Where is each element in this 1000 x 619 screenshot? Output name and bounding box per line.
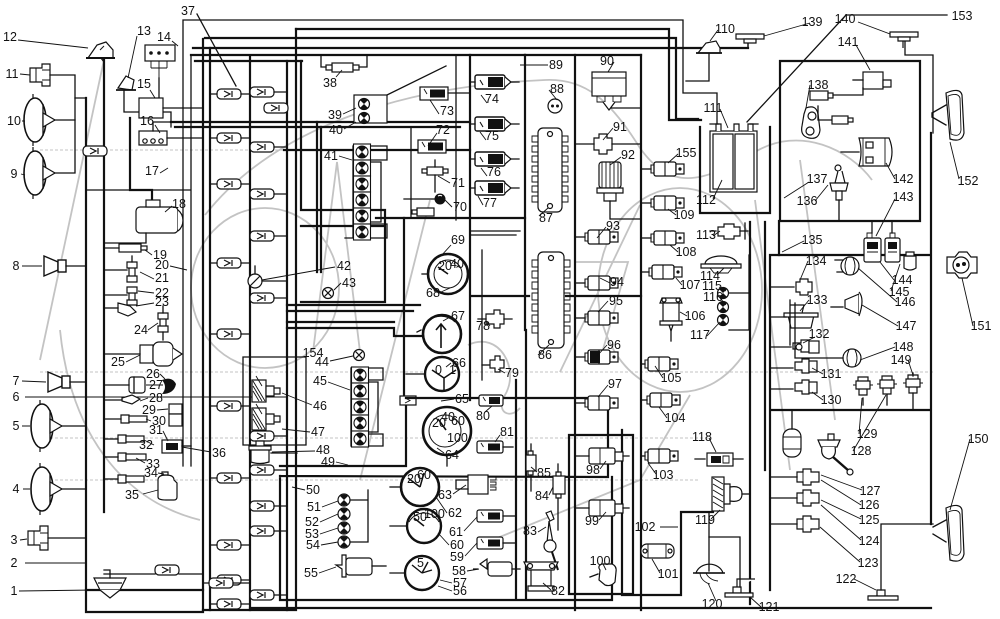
wire central rail E: [203, 29, 296, 610]
capsule 27: [104, 377, 145, 393]
svg-text:2: 2: [11, 556, 18, 570]
cap 145b: [904, 252, 916, 270]
fuse 71: [422, 160, 448, 192]
svg-text:79: 79: [505, 366, 519, 380]
lamp 3: [28, 526, 86, 550]
headlamp 9: [24, 98, 75, 199]
wire cluster corner 68: [470, 231, 520, 235]
svg-text:73: 73: [440, 104, 454, 118]
pan 133: [770, 300, 818, 345]
fuse left bus small: [83, 146, 250, 588]
terminal block 41: [345, 144, 387, 240]
fan 26: [162, 379, 176, 394]
fuse 84 vertical: [553, 464, 565, 530]
fuse 65: [400, 396, 416, 405]
speaker 152: [932, 90, 964, 140]
wire rail x411: [410, 127, 412, 218]
switch 31/36: [162, 440, 191, 453]
lamp 146: [835, 257, 859, 275]
svg-text:23: 23: [155, 295, 169, 309]
svg-text:100: 100: [590, 554, 611, 568]
sensor 78: [478, 310, 512, 328]
svg-text:98: 98: [586, 463, 600, 477]
relay 39/40: [354, 95, 387, 124]
svg-text:6: 6: [13, 390, 20, 404]
svg-text:25: 25: [111, 355, 125, 369]
wire battery box: [700, 127, 770, 213]
svg-text:71: 71: [451, 176, 465, 190]
fuse 59: [477, 537, 515, 549]
wire rail x482: [481, 250, 483, 380]
svg-text:72: 72: [436, 123, 450, 137]
svg-text:141: 141: [838, 35, 859, 49]
horn 114: [701, 256, 741, 273]
ground 122: [868, 524, 933, 600]
svg-text:143: 143: [893, 190, 914, 204]
watermark big ellipse: [40, 55, 935, 545]
svg-text:96: 96: [607, 338, 621, 352]
wire bus y150: [284, 149, 470, 151]
wire bottom left bus: [86, 589, 203, 591]
svg-text:153: 153: [952, 9, 973, 23]
wire label37 leader: [197, 14, 236, 86]
motor 58: [473, 559, 520, 576]
svg-text:77: 77: [483, 196, 497, 210]
sensor 103: [641, 449, 678, 463]
connector 87: [532, 128, 568, 212]
gauge 66 fuel: [406, 357, 459, 392]
svg-text:135: 135: [802, 233, 823, 247]
wire bus y218: [376, 217, 525, 219]
svg-text:24: 24: [134, 323, 148, 337]
flask 35: [158, 472, 177, 500]
wire central rail A: [202, 39, 204, 610]
connector 16: [139, 122, 203, 145]
headlamp 4: [31, 463, 86, 515]
svg-text:106: 106: [685, 309, 706, 323]
sensor 96: [575, 350, 618, 364]
connector 86: [532, 252, 570, 348]
lighter 101: [641, 544, 674, 558]
svg-text:0: 0: [435, 363, 442, 377]
motor 119: [712, 477, 750, 511]
lever 83: [544, 511, 558, 570]
lamp 148: [795, 303, 861, 367]
wire top bus 3: [205, 38, 698, 119]
sensor 95: [575, 311, 618, 325]
svg-text:147: 147: [896, 319, 917, 333]
svg-text:110: 110: [715, 22, 735, 36]
svg-text:130: 130: [821, 393, 842, 407]
svg-text:39: 39: [328, 108, 342, 122]
plug 128c: [877, 376, 897, 405]
svg-text:105: 105: [661, 371, 682, 385]
svg-text:148: 148: [893, 340, 914, 354]
sensor 109: [641, 196, 684, 210]
wire 17 bend: [130, 118, 152, 201]
wire 2 leader: [25, 562, 86, 564]
svg-text:67: 67: [451, 309, 465, 323]
wire rails x516 x526: [516, 330, 526, 598]
svg-text:139: 139: [802, 15, 823, 29]
svg-text:5: 5: [417, 556, 424, 570]
fuse 81: [477, 441, 513, 453]
svg-text:84: 84: [535, 489, 549, 503]
wire right mid box: [770, 133, 931, 590]
box 50: [280, 398, 612, 600]
fuse near 70: [412, 208, 434, 216]
relay 145: [885, 221, 900, 262]
svg-text:89: 89: [549, 58, 563, 72]
sensor 105: [641, 357, 678, 371]
marker lamp 13: [116, 76, 171, 127]
switch 113: [710, 223, 748, 239]
sensor 30: [104, 415, 147, 423]
wire 98 box: [569, 435, 633, 594]
wire top frame right: [525, 54, 641, 56]
svg-text:57: 57: [453, 576, 467, 590]
sensor 29 group: [169, 404, 182, 426]
gauge 62: [390, 468, 439, 506]
lamp 12: [86, 42, 115, 62]
svg-text:103: 103: [653, 468, 674, 482]
junction 44: [354, 350, 365, 361]
fuse 76: [470, 152, 519, 166]
fuse 75: [470, 117, 519, 131]
wire rail x404: [403, 218, 405, 398]
fuse near 141: [810, 88, 863, 100]
svg-text:40: 40: [450, 257, 464, 271]
fuse 38: [321, 55, 367, 72]
relay 134: [770, 279, 812, 295]
regulator 90: [592, 72, 626, 110]
svg-text:112: 112: [696, 193, 716, 207]
fuse 85 vertical: [526, 444, 536, 491]
svg-text:124: 124: [859, 534, 880, 548]
wire gauge column vertical: [469, 55, 471, 400]
plug 129c: [853, 377, 873, 405]
svg-text:8: 8: [13, 259, 20, 273]
svg-text:68: 68: [426, 286, 440, 300]
wire regulator feeds: [611, 103, 641, 219]
svg-text:81: 81: [500, 425, 514, 439]
box 141: [853, 72, 891, 89]
svg-text:70: 70: [453, 200, 467, 214]
svg-text:7: 7: [13, 374, 20, 388]
svg-text:3: 3: [11, 533, 18, 547]
svg-text:40: 40: [329, 123, 343, 137]
svg-text:21: 21: [155, 271, 169, 285]
relay 98: [575, 448, 629, 464]
svg-text:121: 121: [759, 600, 780, 614]
svg-text:94: 94: [610, 275, 624, 289]
svg-text:138: 138: [808, 78, 829, 92]
term strip 51-54: [338, 490, 368, 548]
lamp 110: [696, 41, 722, 53]
svg-text:142: 142: [893, 172, 914, 186]
capsule 129: [783, 410, 801, 457]
fuse 77: [470, 181, 519, 195]
svg-text:127: 127: [860, 484, 881, 498]
svg-text:87: 87: [539, 211, 553, 225]
headlamp 5: [31, 400, 86, 452]
gauge 60: [390, 507, 445, 543]
plug 79: [482, 356, 504, 372]
ground 1: [94, 570, 126, 598]
svg-text:86: 86: [538, 348, 552, 362]
svg-text:18: 18: [172, 197, 186, 211]
socket 151: [947, 252, 977, 278]
svg-text:16: 16: [140, 114, 154, 128]
fuse 80: [479, 395, 503, 406]
svg-text:62: 62: [448, 506, 462, 520]
svg-text:46: 46: [313, 399, 327, 413]
svg-text:15: 15: [137, 77, 151, 91]
junction 88: [548, 99, 562, 113]
wire col vertical 575: [574, 55, 576, 610]
wire top bus 4: [193, 47, 748, 49]
svg-text:95: 95: [609, 294, 623, 308]
svg-text:93: 93: [606, 219, 620, 233]
horn 7: [48, 372, 86, 392]
svg-text:65: 65: [455, 392, 469, 406]
svg-text:122: 122: [836, 572, 857, 586]
svg-text:111: 111: [703, 101, 722, 115]
wire pair right verticals: [749, 222, 751, 604]
svg-text:150: 150: [968, 432, 989, 446]
svg-text:123: 123: [858, 556, 879, 570]
fuse 61: [477, 510, 515, 522]
horn 8: [44, 190, 190, 276]
svg-text:50: 50: [306, 483, 320, 497]
fuse 73: [387, 66, 470, 100]
svg-text:126: 126: [859, 498, 880, 512]
svg-text:100: 100: [424, 507, 445, 521]
junction 42: [248, 266, 287, 288]
svg-text:4: 4: [13, 482, 20, 496]
svg-text:146: 146: [895, 295, 916, 309]
lamp 11: [30, 64, 86, 98]
valve 82: [524, 562, 558, 591]
wire 16 feed thick: [171, 121, 470, 123]
sensor 32: [104, 435, 144, 443]
sensor 34: [104, 475, 144, 483]
connector 127b: [797, 469, 819, 485]
fuse 19: [104, 244, 147, 252]
wire lamp139 stem: [747, 42, 749, 48]
svg-text:102: 102: [635, 520, 656, 534]
wires right bottom: [770, 477, 797, 524]
headlamp 10: [24, 94, 75, 146]
svg-text:140: 140: [835, 12, 856, 26]
gauge 64 tachometer: [423, 407, 471, 466]
connector 125b: [797, 490, 819, 506]
sensor 94: [575, 276, 618, 290]
terminal block 45: [351, 367, 383, 447]
svg-text:14: 14: [157, 30, 171, 44]
svg-text:117: 117: [690, 328, 710, 342]
relay 99: [575, 500, 629, 516]
wire central rail B: [209, 48, 211, 610]
wire inner box 42: [301, 61, 385, 302]
svg-text:32: 32: [139, 438, 153, 452]
svg-text:137: 137: [807, 172, 828, 186]
sensor 107: [641, 265, 682, 279]
svg-text:76: 76: [487, 165, 501, 179]
svg-text:128: 128: [851, 444, 872, 458]
svg-text:1: 1: [11, 584, 18, 598]
battery 111/112: [710, 124, 758, 192]
svg-text:133: 133: [807, 293, 828, 307]
bracket 138: [802, 106, 832, 138]
wire 6 long leader: [25, 396, 288, 398]
wire 153 diagonal: [747, 15, 947, 122]
fuse 72: [418, 140, 446, 153]
svg-text:20: 20: [155, 258, 169, 272]
svg-text:55: 55: [304, 566, 318, 580]
svg-text:92: 92: [621, 148, 635, 162]
svg-text:75: 75: [485, 129, 499, 143]
sensor 104: [641, 393, 680, 407]
svg-text:54: 54: [306, 538, 320, 552]
svg-text:104: 104: [665, 411, 686, 425]
svg-text:69: 69: [451, 233, 465, 247]
svg-text:35: 35: [125, 488, 139, 502]
svg-text:118: 118: [692, 430, 712, 444]
svg-text:107: 107: [680, 278, 701, 292]
svg-text:42: 42: [337, 259, 351, 273]
svg-text:152: 152: [958, 174, 979, 188]
svg-text:43: 43: [342, 276, 356, 290]
svg-text:60: 60: [417, 468, 431, 482]
svg-text:74: 74: [485, 92, 499, 106]
sensor 130: [770, 380, 817, 394]
filter 25: [104, 342, 182, 366]
wire lamp110 stem: [686, 53, 709, 81]
svg-text:83: 83: [523, 524, 537, 538]
svg-text:17: 17: [145, 164, 159, 178]
resistor 55: [336, 555, 386, 577]
wire bus y296: [472, 295, 641, 297]
svg-text:37: 37: [181, 4, 195, 18]
wire gauge feed pairs: [287, 305, 421, 336]
svg-text:5: 5: [13, 419, 20, 433]
fuse 138b: [832, 116, 853, 124]
lamp 128: [818, 434, 853, 475]
lamp 140: [858, 22, 918, 48]
fuse column left: [210, 89, 250, 609]
svg-text:113: 113: [696, 228, 716, 242]
sensor 132: [770, 340, 819, 353]
wire 16 feed thick lower: [175, 126, 460, 128]
sensor 28: [104, 395, 140, 404]
connector 123b: [797, 516, 819, 532]
plug 47: [252, 404, 280, 430]
sensor 93: [575, 230, 618, 244]
svg-text:136: 136: [797, 194, 818, 208]
svg-text:63: 63: [438, 488, 452, 502]
svg-text:61: 61: [449, 525, 463, 539]
svg-text:59: 59: [450, 550, 464, 564]
sensor 108: [641, 231, 684, 245]
ground 121: [709, 537, 755, 597]
connector 14: [145, 45, 175, 112]
wire 49 bus: [280, 398, 406, 466]
wire central rail C: [249, 56, 251, 610]
svg-text:34: 34: [144, 466, 158, 480]
svg-text:60: 60: [451, 414, 465, 428]
starter 18: [104, 200, 183, 243]
wire top bus 2: [296, 29, 701, 120]
switch 136: [830, 165, 848, 221]
wire left vertical outer: [86, 98, 203, 612]
relay 144: [864, 221, 881, 262]
wire top frame y61: [195, 60, 302, 62]
canister 48: [249, 441, 297, 464]
svg-text:9: 9: [11, 167, 18, 181]
wire bottom bus: [250, 607, 931, 609]
svg-text:101: 101: [658, 567, 679, 581]
svg-text:85: 85: [537, 466, 551, 480]
fuse 74: [470, 75, 519, 89]
svg-text:119: 119: [695, 513, 715, 527]
svg-text:100: 100: [447, 431, 468, 445]
relay 91: [575, 134, 641, 154]
svg-text:60: 60: [450, 538, 464, 552]
fuse column right: [250, 87, 288, 600]
speaker 150: [933, 505, 964, 561]
svg-text:109: 109: [674, 208, 695, 222]
terminals 115-117: [718, 255, 750, 330]
wire col vertical 641: [640, 55, 642, 610]
coil 106: [660, 298, 682, 341]
dome 120: [693, 512, 725, 584]
plug 149c: [903, 373, 923, 410]
svg-text:31: 31: [149, 423, 163, 437]
sensor 22: [104, 287, 137, 305]
svg-text:120: 120: [702, 597, 723, 611]
svg-text:51: 51: [307, 500, 321, 514]
svg-text:11: 11: [6, 67, 19, 81]
svg-text:64: 64: [445, 448, 459, 462]
svg-text:97: 97: [608, 377, 622, 391]
relay 15: [139, 98, 203, 118]
sensor 21: [104, 256, 137, 282]
svg-text:66: 66: [452, 356, 466, 370]
svg-text:12: 12: [3, 30, 17, 44]
lamp 147: [831, 292, 862, 316]
fuse 118: [695, 453, 743, 466]
svg-text:80: 80: [476, 409, 490, 423]
svg-text:49: 49: [321, 455, 335, 469]
relay 142: [841, 138, 892, 166]
gauge 67 ammeter: [415, 315, 461, 353]
svg-text:151: 151: [971, 319, 992, 333]
svg-text:125: 125: [859, 513, 880, 527]
svg-text:91: 91: [613, 120, 627, 134]
svg-text:154: 154: [303, 346, 324, 360]
flasher 63: [456, 475, 496, 494]
svg-text:41: 41: [324, 149, 338, 163]
box 46/47: [243, 357, 306, 445]
svg-text:131: 131: [821, 367, 842, 381]
svg-text:10: 10: [7, 114, 21, 128]
wire left inner vertical: [103, 58, 105, 512]
svg-text:13: 13: [137, 24, 151, 38]
wire drop pair x317: [317, 122, 321, 272]
sensor 97: [575, 396, 618, 410]
motor 92: [597, 162, 623, 219]
